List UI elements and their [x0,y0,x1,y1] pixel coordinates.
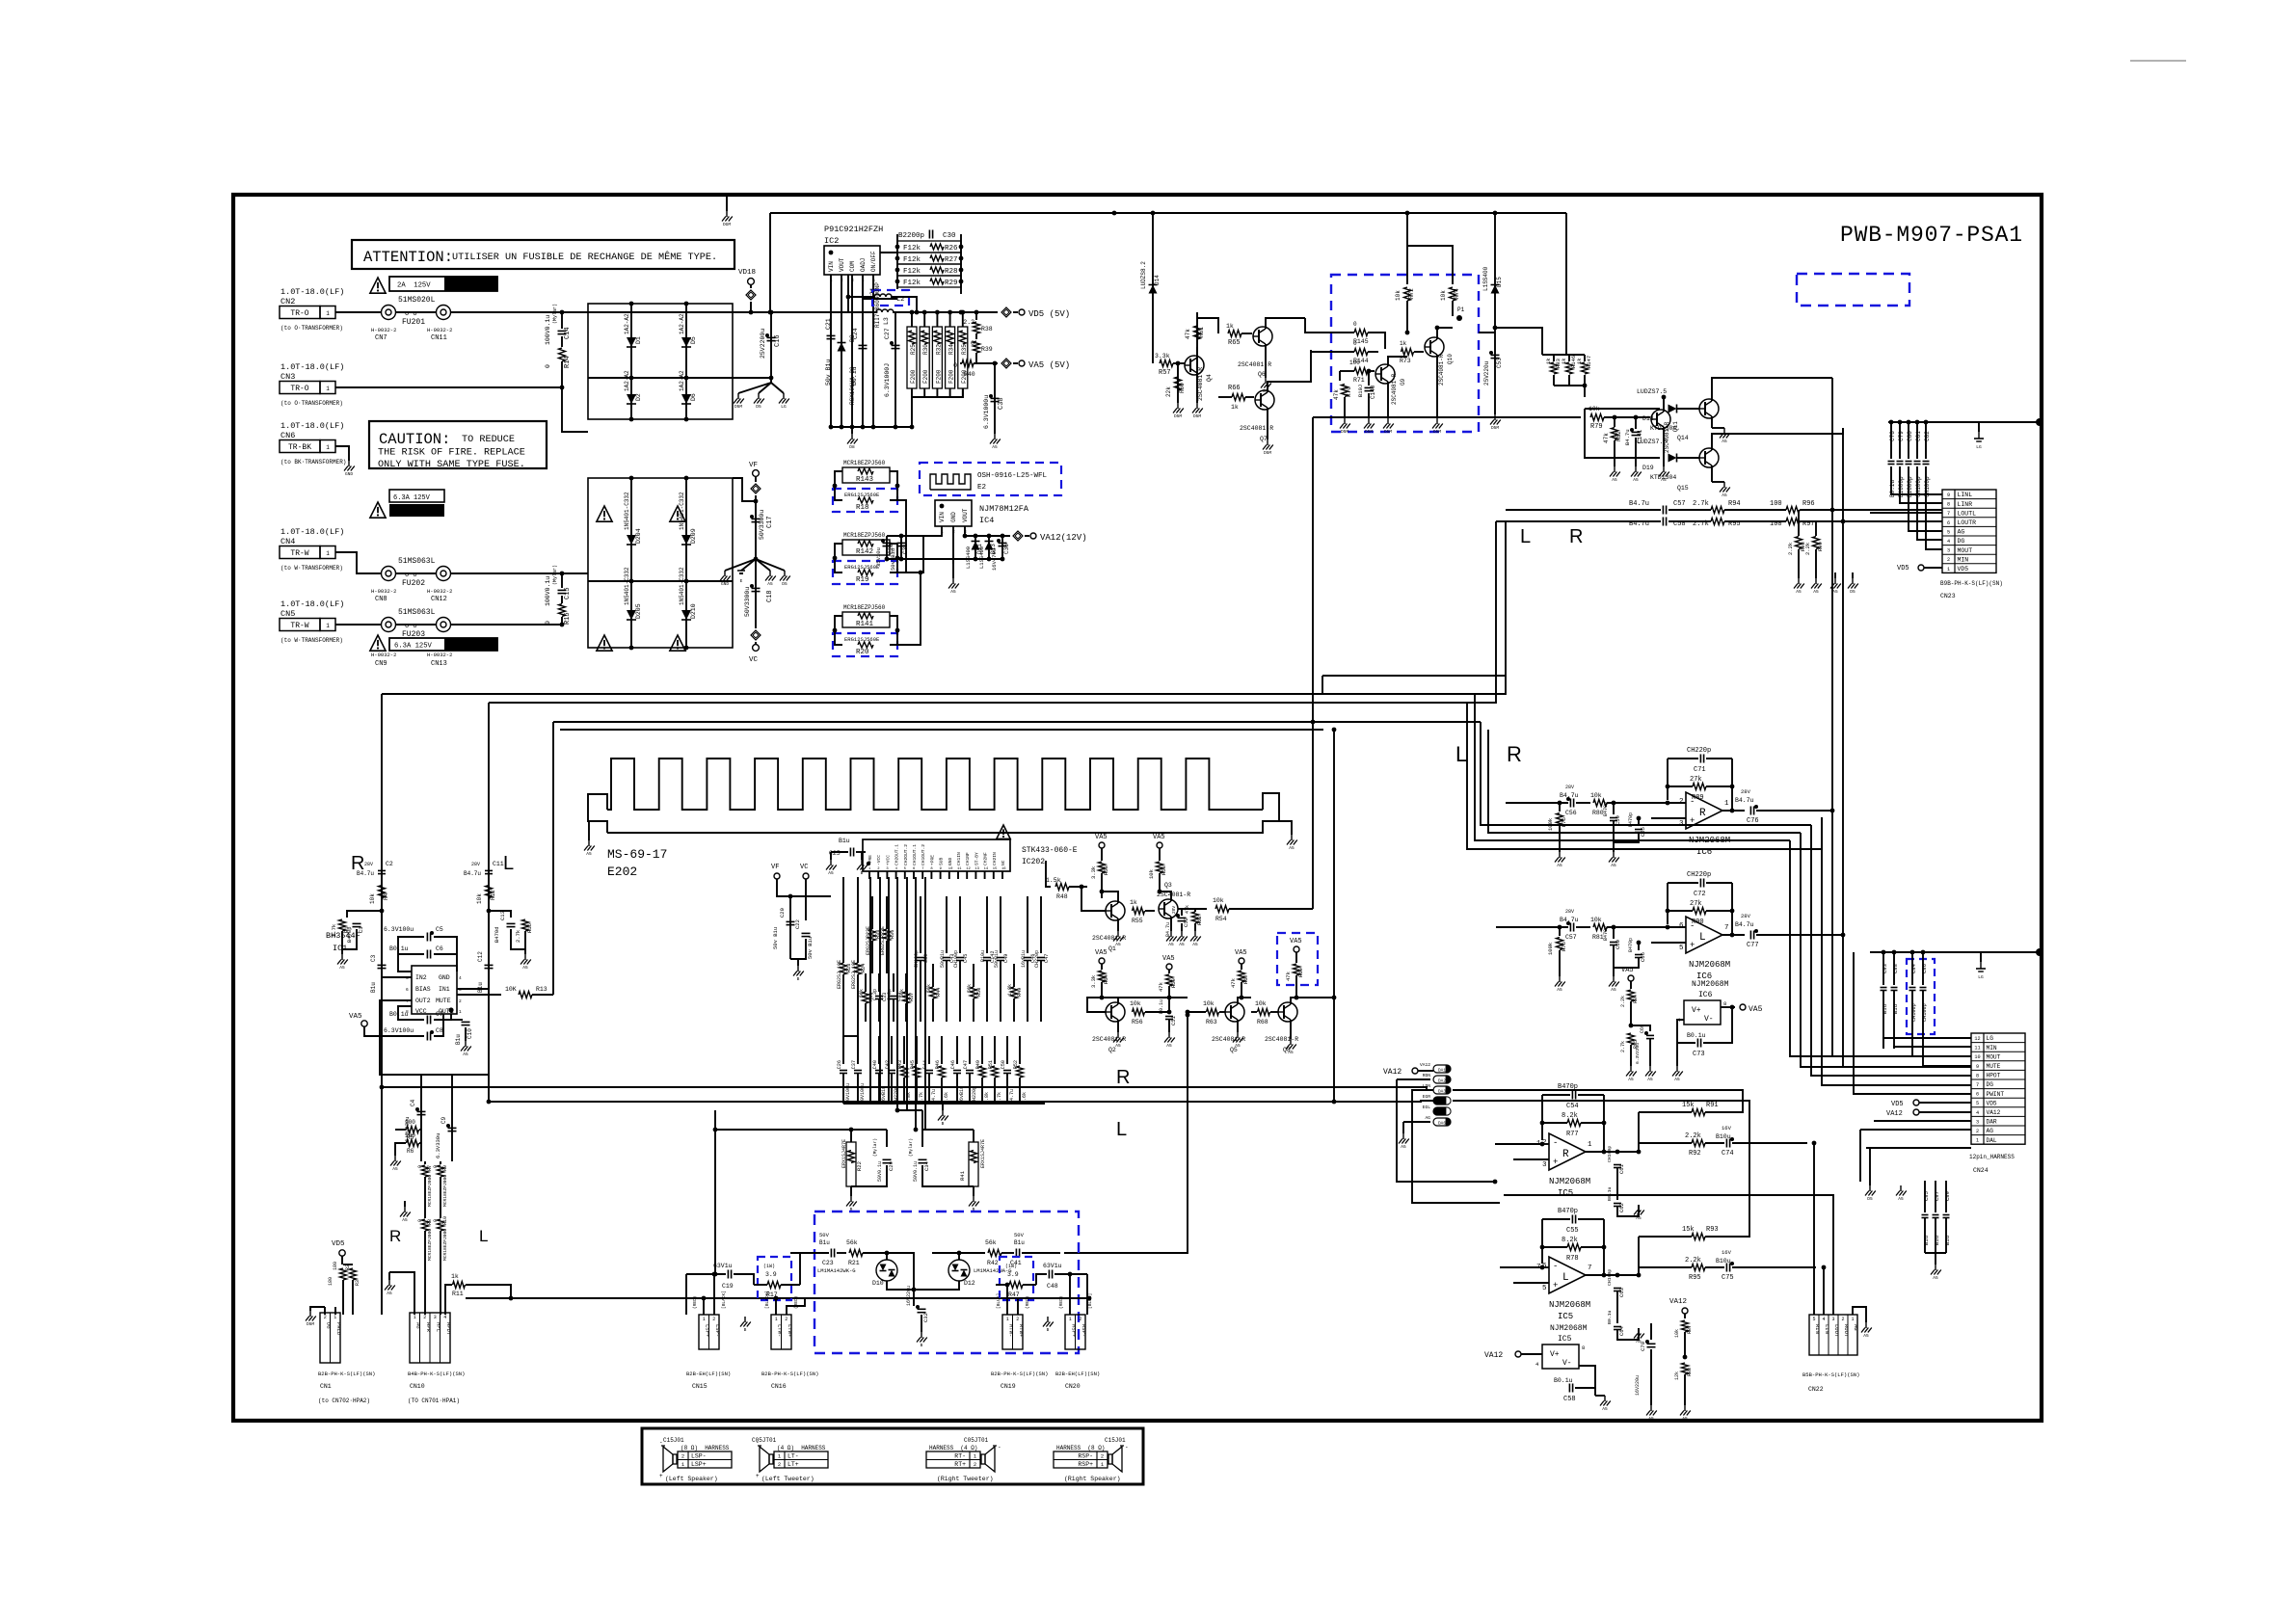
svg-text:HPL: HPL [435,1322,441,1332]
svg-text:C9: C9 [441,1116,447,1124]
ground on AG bus [1978,422,1980,432]
svg-text:2SC4081-R: 2SC4081-R [1391,373,1398,405]
svg-text:(to BK·TRANSFORMER): (to BK·TRANSFORMER) [280,459,346,466]
svg-text:100k: 100k [1547,817,1554,831]
svg-text:VA5: VA5 [1290,938,1302,945]
svg-text:L: L [1699,932,1706,944]
svg-text:CH100p: CH100p [953,950,959,968]
svg-text:C66: C66 [1640,952,1646,962]
svg-text:GND: GND [950,512,957,522]
svg-text:G9: G9 [1400,378,1406,386]
svg-text:7: 7 [1976,1082,1979,1088]
resistor R4 10k [379,886,386,898]
svg-text:R3: R3 [355,1280,360,1286]
svg-text:DGM: DGM [723,222,731,227]
svg-text:ERG2SJ.10E: ERG2SJ.10E [837,960,842,989]
capacitor C12 B1u [485,964,494,966]
svg-text:50V3300u: 50V3300u [759,510,765,540]
svg-text:BH3544F: BH3544F [326,931,360,941]
svg-text:25V2200u: 25V2200u [760,329,766,359]
capacitor C50 B4.7u [1006,1036,1008,1064]
capacitor C10 B1u [451,1019,463,1021]
svg-text:CN4: CN4 [280,537,295,546]
svg-text:R26: R26 [945,245,958,253]
svg-text:C15J01: C15J01 [663,1437,684,1444]
svg-text:1N5401-C332: 1N5401-C332 [624,567,630,605]
svg-text:D5M: D5M [1491,425,1499,431]
svg-text:B1u: B1u [455,1034,462,1045]
resistor R69 47k VA5 (blue dashed) [1277,933,1318,985]
svg-text:Q14: Q14 [1677,435,1689,441]
svg-text:1A2-A2: 1A2-A2 [624,370,630,391]
svg-text:+: + [1553,1281,1558,1291]
svg-text:47k: 47k [1230,977,1237,988]
svg-text:D8: D8 [849,444,855,450]
svg-text:1k: 1k [1231,404,1239,411]
IC202 pin drop wires [869,877,871,1104]
svg-text:F12k: F12k [903,268,921,276]
svg-text:10K: 10K [505,986,517,993]
capacitor C22 50v B1u [802,932,811,934]
svg-text:VC: VC [800,864,808,871]
svg-text:100V0.1u: 100V0.1u [545,315,551,345]
svg-text:A5: A5 [1661,477,1667,483]
svg-text:10k: 10k [476,893,483,904]
svg-text:CH100p: CH100p [914,950,920,968]
svg-text:B0.1u: B0.1u [1607,1310,1613,1324]
connector CN22 [1809,1315,1857,1355]
svg-text:B1u: B1u [819,1239,830,1246]
capacitor C38 6.3V1000u [994,363,996,434]
svg-text:25V220u: 25V220u [1483,360,1490,386]
svg-text:100: 100 [405,1119,415,1126]
capacitor C49 50vB1u [1000,896,1001,953]
svg-text:1: 1 [326,386,330,392]
resistor R51 2.7k [994,1036,996,1064]
svg-text:R6: R6 [407,1148,414,1155]
svg-text:OADJ: OADJ [860,258,867,272]
svg-text:R87: R87 [1687,1325,1693,1334]
fuse bar 6.3A 125V (bottom) [370,635,386,651]
svg-text:C48: C48 [1047,1283,1058,1290]
svg-text:(1W): (1W) [763,1264,775,1269]
svg-text:D5M: D5M [307,1321,314,1327]
svg-text:ERG2SJR22E: ERG2SJR22E [880,926,886,955]
transistor Q8 [1278,1002,1297,1022]
svg-text:FU203: FU203 [402,630,425,639]
svg-text:1A2-A2: 1A2-A2 [624,313,630,334]
IC4 NJM78M12FA [935,500,972,526]
svg-text:VA5 (5V): VA5 (5V) [1028,360,1070,370]
svg-text:RIN: RIN [1814,1324,1821,1334]
resistors R7 R9 MCR18EZPJ000 [424,1161,426,1164]
resistor R36 ERG2SJR22E [886,896,888,929]
svg-text:3.9: 3.9 [1007,1271,1019,1278]
svg-text:V-: V- [1704,1015,1714,1024]
svg-text:UTILISER UN FUSIBLE DE RECHANG: UTILISER UN FUSIBLE DE RECHANGE DE MÊME … [452,250,717,263]
bus vertical x=1232 [1064,1015,1188,1253]
bus wires left channel [382,521,1506,694]
svg-text:D205: D205 [635,603,642,619]
svg-text:CH1IN: CH1IN [956,852,962,865]
svg-text:DAL: DAL [1987,1137,1997,1144]
svg-text:B4.7u: B4.7u [1735,921,1754,928]
resistor R70 47k [1339,371,1341,381]
svg-text:P1: P1 [1457,306,1465,313]
svg-text:VD5 (5V): VD5 (5V) [1028,309,1070,319]
svg-text:F12k: F12k [903,256,921,264]
svg-text:(Left Speaker): (Left Speaker) [665,1476,718,1482]
svg-text:(to W·TRANSFORMER): (to W·TRANSFORMER) [280,637,343,644]
svg-text:Q3: Q3 [1164,882,1172,889]
capacitor C61 CH100p [1615,1150,1620,1155]
svg-text:R29: R29 [945,280,958,287]
svg-text:CN13: CN13 [431,660,447,668]
capacitor C24 B0.1u [859,344,868,346]
speaker (Left Speaker) [673,1454,677,1464]
inductor L3 on VD5 rail [873,311,877,313]
resistor R47 3.9 (blue dashed) [1000,1257,1033,1300]
svg-text:NJM2068M: NJM2068M [1689,960,1730,970]
svg-text:R72: R72 [1408,288,1415,299]
capacitor C60 B470p [1613,927,1615,939]
svg-text:TR-BK: TR-BK [288,443,311,452]
capacitor C142 B10u [986,896,988,953]
svg-text:B470p: B470p [1603,926,1609,941]
capacitor C20 50v B1u [789,896,791,959]
svg-text:P91C921H2FZH: P91C921H2FZH [824,225,883,234]
node VA5 (5V) [1001,359,1011,368]
svg-text:GND: GND [345,471,353,477]
resistor R57 3.3k [1152,299,1154,363]
svg-text:NJM2068M: NJM2068M [1549,1300,1590,1310]
svg-text:V+: V+ [1692,1006,1701,1015]
resistor R17 3.9 (blue dashed) [758,1257,791,1300]
svg-text:A5: A5 [1813,589,1819,595]
svg-text:D204: D204 [635,528,642,544]
svg-text:R93: R93 [1706,1226,1719,1234]
resistor R18 ERG12SJ560E (blue dashed) [833,489,897,512]
svg-text:C22: C22 [794,919,801,929]
svg-text:10k: 10k [1148,868,1155,879]
svg-text:A5: A5 [1289,845,1295,851]
svg-text:RSP+: RSP+ [1078,1461,1093,1468]
capacitor C14 [561,312,563,329]
svg-text:1: 1 [414,1315,416,1320]
svg-text:6.3V220u: 6.3V220u [1635,1043,1641,1064]
svg-text:10k: 10k [1590,792,1602,799]
capacitor C27 6.3V1000J [892,344,900,346]
svg-text:VA12(12V): VA12(12V) [1040,533,1087,543]
svg-text:DA6: DA6 [1438,1122,1446,1127]
svg-text:B2B-EH(LF)(SN): B2B-EH(LF)(SN) [686,1371,731,1377]
svg-text:C3: C3 [370,954,377,962]
svg-text:R11: R11 [452,1291,464,1297]
svg-text:A5: A5 [1647,1077,1653,1082]
svg-text:B4.7u: B4.7u [357,870,374,877]
svg-text:A5: A5 [1166,1043,1172,1049]
wire CN4 row [335,552,381,573]
svg-text:47k: 47k [1158,981,1164,992]
svg-text:8: 8 [1723,1000,1726,1007]
svg-text:LSP-: LSP- [691,1453,707,1460]
svg-text:LOUTL: LOUTL [1958,510,1977,517]
svg-text:35V10u: 35V10u [875,547,882,567]
svg-text:R63: R63 [1206,1019,1217,1025]
capacitor C85 B1u [1924,1181,1926,1212]
svg-text:LIN: LIN [1824,1324,1830,1334]
svg-text:AG: AG [1987,1128,1994,1134]
wire OADJ to ladder [863,275,897,299]
svg-text:B: B [942,1121,945,1127]
svg-text:4: 4 [1976,1110,1979,1116]
op-amp IC5 L (NJM2068M) [1549,1257,1586,1293]
svg-text:C10: C10 [467,1028,473,1039]
svg-text:IC2: IC2 [824,236,839,246]
svg-text:8: 8 [1582,1344,1585,1351]
svg-text:R44: R44 [936,988,942,997]
svg-text:B4.7u: B4.7u [1629,500,1649,508]
svg-text:2SC4081-R: 2SC4081-R [1265,1036,1298,1043]
svg-text:B0.1u: B0.1u [1687,1032,1706,1039]
svg-text:100k: 100k [1547,942,1554,955]
IC1 output loop wires [380,1000,489,1075]
svg-text:5: 5 [1812,1317,1815,1322]
resistor R1 2.7k + C1 B470p [347,911,382,918]
svg-text:56k: 56k [859,989,865,998]
svg-text:C5: C5 [436,926,443,933]
svg-text:C60: C60 [1615,940,1621,949]
svg-text:D5: D5 [782,581,788,587]
svg-text:C53: C53 [1496,358,1503,368]
svg-text:R69: R69 [1297,968,1304,977]
svg-text:DA4: DA4 [1438,1101,1446,1105]
svg-text:6: 6 [1679,922,1684,930]
svg-text:R67: R67 [1242,974,1249,984]
svg-text:R74: R74 [1454,288,1460,299]
capacitor C47 CH220p [969,1036,971,1064]
svg-text:1k: 1k [1226,323,1234,330]
svg-text:CN9: CN9 [375,660,387,668]
svg-text:DG: DG [1958,538,1965,545]
wire CN2 row [335,311,381,313]
svg-text:0: 0 [1353,321,1357,328]
svg-text:B9B-PH-K-S(LF)(SN): B9B-PH-K-S(LF)(SN) [1940,580,2003,587]
svg-text:C23: C23 [822,1260,834,1266]
svg-text:R12: R12 [490,890,496,900]
svg-text:1.8k: 1.8k [1007,984,1013,996]
svg-text:B2200p: B2200p [898,232,924,240]
svg-text:C61: C61 [1618,1163,1625,1174]
heatsink right ground [1279,821,1292,835]
snubber R22 ERX1SJ4R7E + C29 [715,1129,887,1131]
svg-text:B1u: B1u [477,982,484,993]
svg-text:16V: 16V [1722,1125,1732,1131]
svg-text:R20: R20 [856,649,869,656]
svg-text:1: 1 [326,550,330,557]
svg-text:CH1OUT.2: CH1OUT.2 [921,844,926,865]
svg-text:10k: 10k [1674,1329,1680,1338]
svg-text:R19: R19 [856,576,869,584]
svg-text:D12: D12 [964,1280,975,1287]
svg-text:2: 2 [712,1317,715,1322]
svg-text:2: 2 [974,1461,976,1468]
svg-text:A5: A5 [1633,477,1639,483]
op-amp IC5 R (NJM2068M) [1549,1133,1586,1170]
svg-text:R88: R88 [1687,1368,1693,1376]
svg-text:R92: R92 [1689,1150,1701,1158]
svg-text:B10u: B10u [980,950,986,962]
svg-text:-: - [1553,1138,1558,1148]
svg-text:+VCC: +VCC [885,855,891,865]
svg-text:B4.7u: B4.7u [464,870,481,877]
svg-text:VA5: VA5 [1621,967,1634,974]
svg-text:4: 4 [443,1315,446,1320]
svg-text:R25: R25 [910,344,917,355]
svg-text:15: 15 [993,867,998,871]
heatsink MS-69-17 E202 comb [607,793,1279,833]
svg-text:7: 7 [1947,511,1950,517]
resistor R43 1.8k [903,1036,905,1064]
svg-text:Q15: Q15 [1677,485,1689,492]
svg-text:-: - [659,1439,663,1446]
capacitor C66 B470p [1638,943,1640,950]
svg-text:R43: R43 [897,1060,903,1069]
svg-text:CN8: CN8 [375,596,387,603]
wires CN24 lower rows [1874,1120,1971,1122]
svg-text:C40: C40 [872,1060,878,1069]
svg-text:IC1: IC1 [333,944,347,953]
svg-text:C89: C89 [1944,1191,1951,1201]
svg-text:(to W·TRANSFORMER): (to W·TRANSFORMER) [280,565,343,572]
svg-text:VD5: VD5 [1987,1100,1997,1106]
svg-text:CN24: CN24 [1973,1167,1989,1174]
svg-text:CN20: CN20 [1065,1383,1081,1390]
ATTENTION box [352,240,734,269]
svg-text:7: 7 [921,867,923,871]
svg-text:LT-: LT- [788,1453,799,1460]
svg-text:ON/OFF: ON/OFF [870,251,877,272]
svg-text:2: 2 [1976,1129,1979,1134]
svg-text:28V: 28V [1565,785,1574,790]
svg-text:0: 0 [1353,340,1357,347]
svg-text:C56: C56 [1565,810,1577,816]
svg-text:VIN: VIN [828,261,835,272]
svg-text:D5M: D5M [1365,429,1373,435]
svg-text:C77: C77 [1747,942,1759,949]
svg-text:B10J: B10J [1357,385,1364,397]
svg-text:L: L [503,853,514,874]
capacitor C81 CH100p [1916,422,1918,459]
svg-text:6.3A 125V: 6.3A 125V [394,643,433,651]
svg-text:C88: C88 [1892,964,1899,973]
svg-text:[BLUE]: [BLUE] [996,1293,1001,1309]
svg-text:3: 3 [1976,1119,1979,1125]
svg-text:2.7k: 2.7k [1693,500,1709,508]
wire bridge to C16 [733,377,771,379]
svg-text:DAR: DAR [1987,1119,1997,1126]
svg-text:6: 6 [406,987,409,993]
svg-text:R28: R28 [945,268,958,276]
svg-text:FU201: FU201 [402,318,425,327]
svg-text:2: 2 [1841,1317,1844,1322]
svg-text:VOUT: VOUT [839,257,845,272]
heatsink E2 OSH-0916-L25-WFL (blue dashed) [920,463,1061,495]
svg-text:D5M: D5M [1433,429,1441,435]
svg-text:R142: R142 [856,548,873,556]
svg-text:-VCC: -VCC [876,855,882,865]
svg-text:1A2-A2: 1A2-A2 [679,370,685,391]
resistor R14 [559,348,566,361]
svg-text:MIN: MIN [1987,1045,1997,1052]
svg-text:CN16: CN16 [771,1383,787,1390]
capacitor C39 CH100p [920,896,921,953]
svg-text:C8: C8 [436,1027,443,1034]
svg-text:B2B-PH-K-S(LF)(SN): B2B-PH-K-S(LF)(SN) [318,1371,375,1377]
svg-text:C140: C140 [1370,385,1376,399]
bottom bus under IC2 [831,426,914,428]
resistor R50 56k [973,964,974,987]
diode bridge D1 D2 D5 D6 [588,304,733,419]
svg-text:A5: A5 [1611,987,1616,993]
svg-text:R62: R62 [1196,916,1203,925]
svg-text:A5: A5 [1832,589,1838,595]
svg-text:RTW-: RTW- [1007,1324,1014,1337]
svg-text:FU202: FU202 [402,579,425,588]
svg-text:R46: R46 [935,1060,941,1069]
svg-text:R60: R60 [1179,383,1186,393]
resistors R98 R99 2.2k [1798,510,1800,536]
svg-text:L: L [1116,1119,1127,1140]
svg-text:LOUTR: LOUTR [1958,519,1977,526]
svg-text:R66: R66 [1228,385,1241,392]
svg-text:C85: C85 [1923,1191,1930,1201]
svg-text:R14: R14 [564,356,572,368]
svg-text:C29: C29 [888,1161,894,1171]
svg-text:CN2: CN2 [280,297,295,306]
svg-text:C47: C47 [963,1060,969,1069]
resistor R49 1.8k [1013,964,1015,987]
svg-text:C64: C64 [1618,1325,1625,1336]
svg-text:CN7: CN7 [375,334,387,342]
bead P1 [1452,301,1454,316]
svg-text:47k: 47k [1285,971,1292,981]
svg-text:R42: R42 [987,1260,999,1266]
svg-text:2: 2 [1079,1317,1081,1322]
svg-text:A5: A5 [1796,589,1802,595]
svg-text:A5: A5 [1235,1043,1241,1049]
nested corner wires (routing channel) [1481,722,1811,825]
fuse bar 6.3A 125V (middle) [389,490,444,502]
svg-text:R84: R84 [1633,995,1639,1003]
svg-text:D210: D210 [690,603,697,619]
svg-text:50V0.1u: 50V0.1u [877,1161,883,1182]
resistor R61 47k [1196,312,1198,358]
svg-text:V+: V+ [1550,1350,1560,1359]
svg-text:A5: A5 [1602,1406,1608,1412]
connector CN1 [320,1313,340,1363]
svg-text:2: 2 [1679,798,1684,806]
svg-text:7: 7 [406,998,409,1004]
svg-text:27k: 27k [1690,900,1702,908]
svg-text:CN1: CN1 [320,1383,332,1390]
svg-text:VA12: VA12 [1886,1110,1903,1118]
svg-text:D5: D5 [690,336,697,344]
svg-text:C86: C86 [1921,964,1928,973]
svg-text:10k: 10k [369,893,376,904]
svg-text:50vB1u: 50vB1u [940,950,946,968]
svg-text:MCR18EZPJ560: MCR18EZPJ560 [843,604,886,611]
